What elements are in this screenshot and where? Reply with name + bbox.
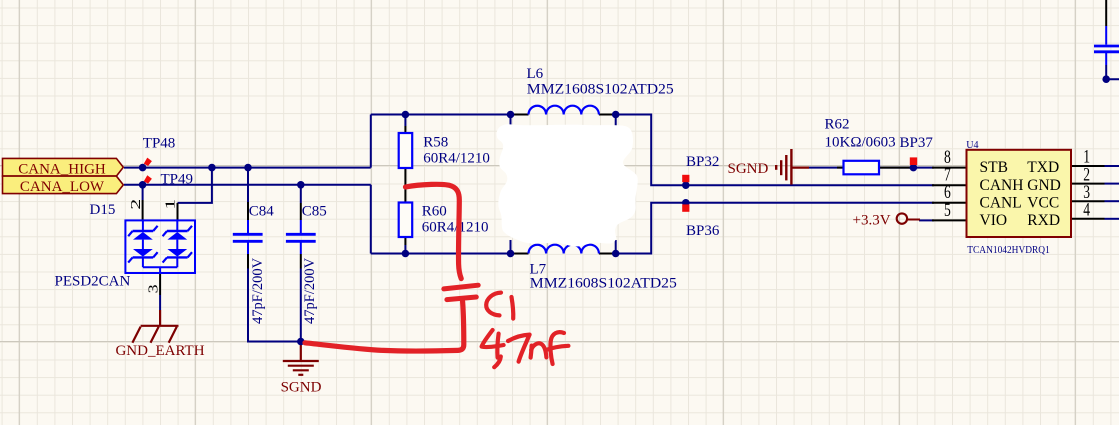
wire C84 bottom branch to SGND corner [248,269,301,342]
capacitor C1 top plate [444,285,478,289]
pin lead R58 top [404,126,406,133]
handwritten digit 4 of 4,7nf [482,330,504,347]
svg-text:CANA_LOW: CANA_LOW [20,179,105,195]
svg-text:60R4/1210: 60R4/1210 [423,150,490,166]
pin number texts black [129,147,1091,294]
svg-text:C84: C84 [249,204,275,220]
svg-text:VCC: VCC [1027,194,1059,211]
pin U4-4 [1071,218,1105,220]
top right capacitor black lead [1105,0,1107,26]
node L7 left bottom rail [507,250,515,258]
svg-text:BP36: BP36 [686,223,720,239]
svg-text:5: 5 [944,200,951,221]
pin U4-1 [1071,165,1105,167]
node BP36 on CANL [682,199,690,207]
svg-text:1: 1 [163,199,178,210]
handwritten digit 7 of 4,7nf [508,335,530,362]
text labels navy [55,66,1050,324]
node TP48 on CANA_HIGH [139,164,147,172]
capacitor C-topright plates [1094,46,1119,52]
text labels maroon [115,161,890,396]
svg-text:PESD2CAN: PESD2CAN [55,273,131,289]
wire R62 to pin8 [879,167,934,169]
svg-text:SGND: SGND [281,380,322,396]
wire bottom rail right segment to corner and up to CANL row [616,203,934,254]
resistor R62 [844,161,880,175]
ground SGND symbol right (rotated) [776,149,809,185]
IC U4 pin name texts [980,159,1061,229]
power +3.3V circle [897,213,907,223]
svg-text:R62: R62 [825,116,850,132]
svg-text:BP32: BP32 [686,154,719,170]
node BP32 on CANH [682,181,690,189]
node BP37 on pin8 wire [910,164,918,172]
pin lead L7 left [514,253,529,255]
handwritten letter C of C1 [486,293,501,316]
pin lead R62 right to U4 pin8 [879,167,913,169]
pin U4-8 [932,167,967,169]
diode D15 internal bus to pin3 [143,267,177,273]
pin U4-2 [1071,183,1105,185]
pin lead C85 bottom [300,254,302,269]
port CANA_HIGH [3,158,124,177]
wire CANA_LOW horizontal [124,184,371,186]
node L7 right bottom rail [612,250,620,258]
wire SGND to R62 [809,167,844,169]
svg-text:L6: L6 [527,66,544,82]
pad BP36 [682,204,689,211]
resistor R60 [399,203,413,238]
wire D15 pin2 branch from CANA_LOW [142,185,144,200]
wire U4 pin3 to edge [1105,200,1119,202]
wire U4 pin1 to edge [1105,165,1119,167]
wire R58 top lead from rail [404,115,406,127]
pin lead R60 bottom [404,237,406,245]
svg-text:C85: C85 [302,204,327,220]
pin U4-6 [932,202,967,204]
wire C84 top branch [247,168,249,202]
svg-text:47pF/200V: 47pF/200V [250,257,266,324]
testpoint TP49 red flag [144,175,152,183]
wire U4 pin2 to edge [1105,183,1119,185]
resistor R58 [399,133,413,168]
wire bottom rail left segment [371,253,514,255]
svg-text:GND: GND [1027,177,1061,194]
testpoint TP48 red flag [144,158,152,166]
svg-text:TP49: TP49 [161,172,194,188]
capacitor C-topright body lead [1105,26,1107,45]
diode pair D15 right chain [163,220,192,267]
svg-text:SGND: SGND [728,161,769,177]
node R60 bottom rail [402,250,410,258]
svg-text:47pF/200V: 47pF/200V [302,257,318,324]
wire CANA_HIGH riser to top rail [370,115,372,168]
svg-text:CANH: CANH [980,177,1024,194]
red wire from cap C1 to SGND node [305,302,464,352]
wire R60 bottom lead to rail [404,245,406,254]
capacitor C84 [233,220,263,254]
svg-text:3: 3 [146,284,161,293]
pin U4-7 [932,184,967,186]
svg-text:BP37: BP37 [900,135,934,151]
pin lead R58-R60 middle [404,168,406,203]
wire C85 bottom branch [300,269,302,342]
pin lead D15 pin3 [159,273,161,295]
svg-text:10KΩ/0603: 10KΩ/0603 [825,134,896,150]
wire stub below top-rail node B [615,115,617,131]
red wire from R58/R60 node to cap C1 [406,184,462,278]
svg-text:TXD: TXD [1027,159,1059,176]
svg-text:R58: R58 [423,134,448,150]
port CANA_LOW [3,176,124,195]
white blob erase mark [497,124,638,246]
wire +3.3V to pin5 [919,219,934,221]
inductor L7 [529,245,599,254]
wire CANA_LOW dropper to bottom rail [370,185,372,254]
pin lead D15 pin2 [142,200,144,221]
wire top right cap to junction [1106,65,1119,79]
svg-text:TCAN1042HVDRQ1: TCAN1042HVDRQ1 [967,244,1050,256]
svg-text:GND_EARTH: GND_EARTH [115,343,204,359]
wire U4 pin4 to edge [1105,218,1119,220]
node top-right junction [1102,75,1110,83]
node L6 right top rail [612,111,620,119]
pin lead R62 left [837,167,844,169]
pin lead L6 left [514,114,529,116]
svg-text:MMZ1608S102ATD25: MMZ1608S102ATD25 [530,275,677,291]
pin lead D15 pin1 [177,203,179,221]
node L6 left top rail [507,111,515,119]
power +3.3V stub [907,219,920,221]
svg-text:RXD: RXD [1027,212,1060,229]
pin lead C84 bottom [247,254,249,269]
wire C85 top branch [300,185,302,203]
handwritten letter f of 4,7nf [550,332,564,364]
svg-text:MMZ1608S102ATD25: MMZ1608S102ATD25 [527,82,674,98]
svg-text:CANL: CANL [980,194,1022,211]
svg-text:D15: D15 [90,202,116,218]
capacitor C1 bottom plate [447,297,476,300]
pin lead L6 right [599,114,616,116]
node C85 tap on CANA_LOW [297,181,305,189]
svg-text:CANA_HIGH: CANA_HIGH [18,162,106,178]
pin lead L7 right [599,253,616,255]
pin lead C85 top [300,203,302,220]
ground GND_EARTH symbol [132,310,178,343]
svg-text:60R4/1210: 60R4/1210 [422,220,489,236]
test pads red [144,157,917,211]
wire top rail left segment [371,114,514,116]
handwritten digit 1 of C1 [512,297,514,319]
handwritten comma of 4,7nf [494,357,501,368]
pin U4-5 [932,219,967,221]
pin lead C84 top [247,202,249,220]
svg-text:R60: R60 [422,203,447,219]
capacitor C85 [286,220,316,254]
svg-text:TP48: TP48 [143,136,176,152]
wire D15 pin3 to ground [159,295,161,310]
svg-text:U4: U4 [966,139,979,151]
red hand-drawn annotation [305,184,568,367]
wire top rail right segment to corner and down to CANH row [616,115,934,186]
svg-text:4: 4 [1083,200,1090,221]
svg-text:+3.3V: +3.3V [853,213,891,229]
capacitor C-topright bottom lead [1105,53,1107,65]
ground SGND symbol bottom [283,342,319,375]
wire stub below top-rail node A [510,115,512,131]
node C84 tap on CANA_HIGH [244,164,252,172]
svg-text:2: 2 [129,199,144,210]
svg-text:VIO: VIO [980,212,1008,229]
IC U4 body [967,150,1072,237]
svg-text:STB: STB [980,159,1008,176]
diode array D15 box [125,220,195,273]
node SGND corner [297,338,305,346]
inductor L6 [529,106,599,115]
node TP49 / D15 pin2 tap on CANA_LOW [139,181,147,189]
node D15 pin1 tap on CANA_HIGH [208,164,216,172]
node R58 top rail [402,111,410,119]
wire stub above bottom-rail node B [615,240,617,254]
pad BP32 [682,175,689,182]
wire CANA_HIGH horizontal [124,167,371,169]
diode pair D15 left chain [128,220,157,267]
wire stub above bottom-rail node A [510,240,512,254]
pin U4-3 [1071,200,1105,202]
pad BP37 [910,157,917,165]
wire D15 pin1 branch from CANA_HIGH [178,168,212,203]
handwritten letter n of 4,7nf [531,346,532,358]
